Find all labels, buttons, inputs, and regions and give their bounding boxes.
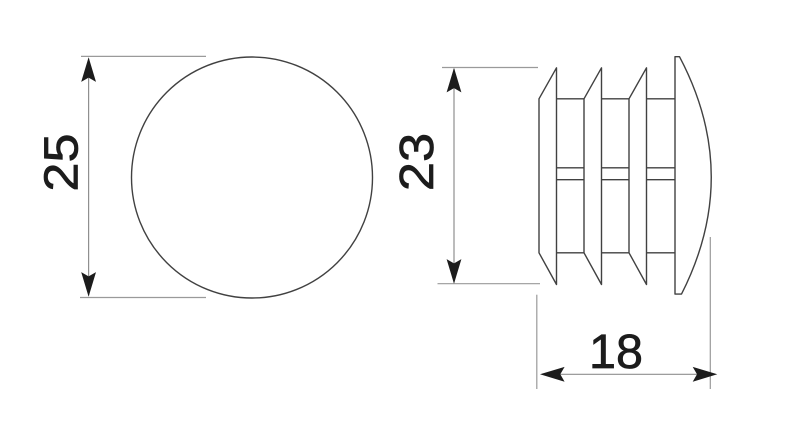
dimension line 25 xyxy=(88,59,90,296)
arrowhead down (23) xyxy=(447,259,462,284)
arrowhead down (25) xyxy=(81,272,96,297)
side view fin 3 xyxy=(629,68,647,285)
arrowhead left (18) xyxy=(540,367,565,382)
side view fin 1 xyxy=(539,68,557,285)
extension line top (dia 25) xyxy=(81,55,206,57)
serif foot of digit 1 xyxy=(594,365,613,368)
extension line right (18) xyxy=(709,237,711,389)
side view end cap xyxy=(675,57,711,294)
middle rib upper edge xyxy=(557,167,676,169)
arrowhead up (23) xyxy=(447,68,462,93)
arrowhead up (25) xyxy=(81,57,96,82)
extension line left (18) xyxy=(536,295,538,389)
core bottom edge xyxy=(557,252,676,254)
extension line top (23) xyxy=(442,67,538,69)
extension line bottom (23) xyxy=(438,283,541,285)
svg-text:23: 23 xyxy=(389,133,444,191)
svg-text:25: 25 xyxy=(33,133,88,191)
middle rib lower edge xyxy=(557,179,676,181)
core top edge xyxy=(557,98,676,100)
dimension line 18 xyxy=(542,373,715,375)
extension line bottom (dia 25) xyxy=(80,297,206,299)
dimension line 23 xyxy=(453,69,455,283)
svg-text:18: 18 xyxy=(589,325,643,379)
side view fin 2 xyxy=(584,68,602,285)
arrowhead right (18) xyxy=(693,367,718,382)
front view circle (plug face, dia 25) xyxy=(132,57,373,298)
